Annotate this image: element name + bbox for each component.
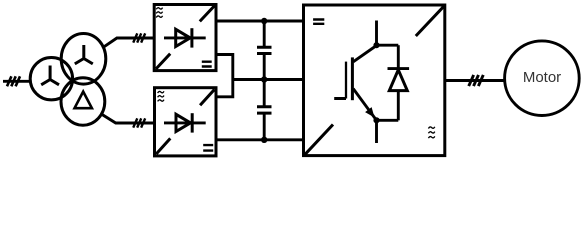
wye symbol (secondary) bbox=[75, 45, 93, 64]
rectifier U1 diode D1 bbox=[164, 28, 206, 47]
three-phase marker (input) bbox=[7, 76, 20, 86]
rectifier U2 box bbox=[155, 88, 217, 156]
node B junction dot bbox=[373, 117, 379, 123]
inverter U3 box bbox=[304, 5, 445, 156]
wire: freewheel diode bottom link bbox=[377, 119, 399, 122]
transformer T1 tertiary winding circle (delta) bbox=[61, 78, 105, 125]
capacitor C1 leads bbox=[263, 21, 266, 80]
freewheel diode D3 bbox=[388, 45, 410, 120]
transformer T1 secondary winding circle (wye) bbox=[61, 34, 106, 85]
capacitor C2 leads bbox=[263, 80, 266, 140]
rectifier U2 diode D2 bbox=[164, 113, 206, 132]
inverter U3 DC mark (=) bbox=[313, 20, 324, 24]
three-phase marker (U1 input) bbox=[133, 33, 145, 42]
transistor Q1 emitter line with arrow bbox=[353, 89, 376, 121]
junction dot: positive rail bbox=[261, 18, 267, 24]
wire: U1 negative output to series link bbox=[216, 55, 233, 97]
capacitor C1 plates bbox=[257, 47, 272, 53]
rectifier U2 AC mark (three tildes) bbox=[158, 91, 164, 93]
transformer T1 primary winding circle (wye) bbox=[30, 57, 72, 99]
inverter U3 diagonal segments bbox=[304, 5, 445, 155]
motor M circle bbox=[505, 41, 580, 116]
wire: DC bus negative rail bbox=[216, 138, 304, 141]
delta symbol (tertiary) bbox=[75, 92, 92, 109]
wire: DC bus positive rail bbox=[216, 20, 304, 23]
rectifier U1 DC mark (=) bbox=[202, 62, 212, 67]
rectifier U1 box bbox=[154, 5, 216, 71]
rectifier U1 AC mark (three tildes) bbox=[156, 8, 162, 10]
junction dot: midpoint rail bbox=[261, 76, 267, 82]
transistor Q1 gate bar bbox=[345, 62, 347, 99]
wire: three-phase AC input line bbox=[3, 80, 31, 83]
three-phase marker (motor feed) bbox=[469, 75, 484, 86]
wire: IGBT collector lead (top) bbox=[375, 21, 378, 46]
capacitor C2 plates bbox=[257, 107, 272, 113]
transistor Q1 collector line bbox=[353, 46, 376, 62]
rectifier U2 DC mark (=) bbox=[203, 145, 213, 151]
inverter U3 AC mark (three tildes) bbox=[428, 127, 434, 129]
three-phase marker (U2 input) bbox=[133, 118, 145, 127]
wire: secondary to rectifier U1 bbox=[103, 38, 154, 48]
junction dot: negative rail bbox=[261, 137, 267, 143]
wire: inverter output to motor bbox=[445, 79, 505, 82]
node A junction dot bbox=[373, 42, 379, 48]
wye symbol (primary) bbox=[41, 66, 59, 85]
motor label bbox=[505, 70, 579, 85]
wire: IGBT emitter lead (bottom) bbox=[375, 120, 378, 143]
rectifier U1 diagonal segments bbox=[156, 6, 215, 69]
wire: freewheel diode top link bbox=[377, 44, 399, 47]
wire: DC bus midpoint rail bbox=[233, 78, 304, 81]
wire: tertiary to rectifier U2 bbox=[100, 113, 154, 123]
rectifier U2 diagonal segments bbox=[156, 90, 214, 155]
transistor Q1 gate lead bbox=[334, 97, 346, 100]
transistor Q1 body bar bbox=[351, 57, 354, 100]
